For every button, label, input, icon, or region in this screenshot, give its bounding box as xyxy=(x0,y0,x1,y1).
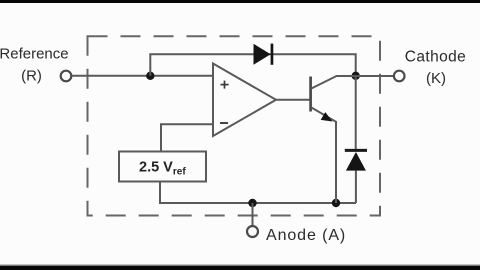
zener diode Z1 (cathode node to bottom rail) xyxy=(345,76,367,203)
svg-text:Reference: Reference xyxy=(0,46,69,63)
wire: op-amp output to transistor base xyxy=(276,99,310,101)
wire: op-amp minus input from Vref xyxy=(161,124,213,152)
wire: anode stub xyxy=(252,203,254,226)
svg-text:(R): (R) xyxy=(21,68,42,85)
Vref source box xyxy=(119,152,206,182)
wire: Vref box to bottom rail xyxy=(159,182,161,204)
terminal K (Cathode pin) xyxy=(394,71,405,82)
wire: junction up and along top to cathode node xyxy=(150,54,355,76)
wire: bottom rail xyxy=(159,202,356,204)
transistor Q1 (NPN) xyxy=(311,76,356,203)
svg-text:(K): (K) xyxy=(426,70,446,87)
node emitter junction xyxy=(332,199,340,207)
svg-text:Cathode: Cathode xyxy=(405,49,466,66)
diode D1 (top, anode left) xyxy=(254,44,274,65)
bottom letterbox bar xyxy=(0,264,480,270)
node R junction xyxy=(146,72,154,80)
node cathode junction xyxy=(352,72,360,80)
wire: reference input to op-amp + input xyxy=(72,75,213,77)
svg-text:Anode (A): Anode (A) xyxy=(266,227,346,244)
IC boundary (dashed) xyxy=(88,36,381,215)
wire: cathode node to cathode terminal xyxy=(356,75,394,77)
top letterbox bar xyxy=(0,0,480,3)
op-amp U1 xyxy=(213,64,276,137)
terminal A (Anode pin) xyxy=(247,226,258,237)
node anode junction xyxy=(248,199,256,207)
terminal R (Reference pin) xyxy=(61,71,72,82)
